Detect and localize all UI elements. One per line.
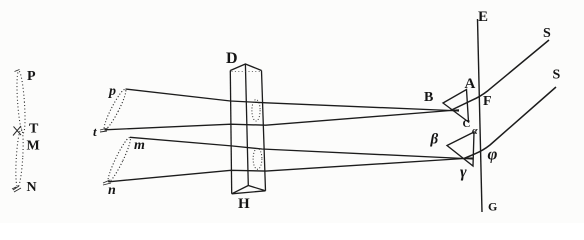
svg-text:A: A bbox=[465, 76, 476, 92]
svg-text:p: p bbox=[108, 84, 116, 99]
prism DH bottom face bbox=[232, 186, 266, 194]
tick at P tip bbox=[15, 70, 20, 72]
refracted ray to upper S bbox=[451, 40, 550, 111]
prism DH top face bbox=[230, 64, 261, 71]
svg-text:P: P bbox=[27, 69, 36, 84]
svg-text:α: α bbox=[472, 126, 478, 137]
scribble at N tip bbox=[12, 186, 21, 192]
svg-text:E: E bbox=[478, 9, 488, 25]
scribble at n tip bbox=[103, 180, 111, 185]
svg-text:B: B bbox=[424, 90, 433, 105]
svg-text:N: N bbox=[27, 180, 37, 195]
image MN (dotted ellipse, far left bottom) bbox=[15, 129, 25, 187]
refracted ray to lower S bbox=[464, 87, 556, 159]
hole mn (dotted ellipse, mid-left lower) bbox=[105, 136, 133, 183]
hole pt (dotted ellipse, mid-left upper) bbox=[101, 88, 128, 132]
prism DH right edge bbox=[262, 71, 266, 191]
prism top back edge (dotted) bbox=[232, 71, 262, 73]
prism DH left edge bbox=[230, 71, 231, 194]
prism beta-gamma (lower small triangle) bbox=[447, 132, 474, 166]
svg-text:m: m bbox=[134, 138, 145, 153]
svg-text:G: G bbox=[488, 200, 497, 214]
svg-text:φ: φ bbox=[488, 145, 498, 164]
ray t: t-tip through prism to upper focus bbox=[105, 110, 460, 130]
prism DH front edge bbox=[245, 64, 248, 186]
svg-text:H: H bbox=[238, 196, 250, 212]
image PT (dotted ellipse, far left top) bbox=[15, 71, 26, 133]
beam section in prism, upper (dotted ellipse) bbox=[252, 100, 260, 121]
crossing X at T bbox=[13, 126, 21, 136]
svg-text:T: T bbox=[29, 122, 39, 137]
svg-text:S: S bbox=[543, 26, 551, 41]
beam section in prism, lower (dotted ellipse) bbox=[253, 148, 262, 169]
svg-text:t: t bbox=[93, 124, 97, 139]
ray n: n-tip through prism to lower focus bbox=[109, 158, 473, 182]
svg-text:M: M bbox=[27, 139, 40, 154]
tick at t tip bbox=[100, 128, 108, 132]
ray m: m-tip through prism to lower focus bbox=[130, 137, 474, 159]
svg-text:n: n bbox=[108, 183, 116, 198]
ray p: p-tip through prism to upper focus bbox=[126, 89, 460, 111]
svg-text:S: S bbox=[553, 68, 561, 83]
svg-text:F: F bbox=[483, 94, 492, 109]
svg-text:D: D bbox=[226, 50, 238, 67]
prism ABC (upper small triangle) bbox=[443, 90, 469, 123]
svg-text:β: β bbox=[430, 132, 439, 148]
svg-text:C: C bbox=[463, 118, 471, 130]
board line EG bbox=[478, 19, 483, 212]
svg-text:γ: γ bbox=[460, 164, 467, 181]
